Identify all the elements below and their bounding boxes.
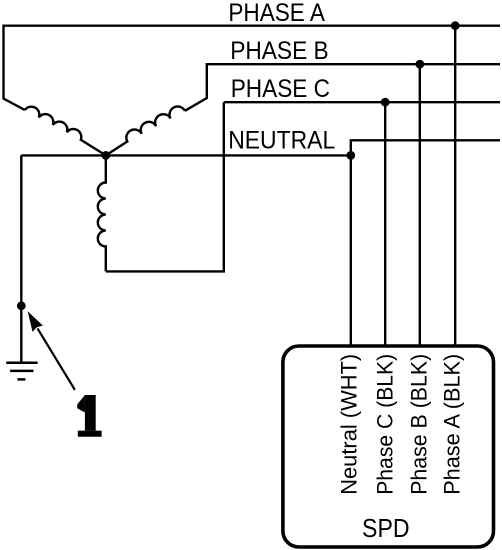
junction: wye neutral point xyxy=(101,151,110,160)
wire: loop from winding L3 back up to PHASE C xyxy=(106,102,224,271)
wire: neutral down to ground electrode xyxy=(20,155,22,362)
winding L1 (Phase A leg of wye) xyxy=(25,107,106,156)
SPD enclosure box xyxy=(283,346,494,547)
wire: Phase B (BLK) drop to SPD xyxy=(419,64,421,344)
junction: phase B tap to SPD xyxy=(415,60,424,69)
wire: PHASE B line down to winding xyxy=(185,64,500,111)
wire: PHASE C line xyxy=(224,101,500,103)
svg-text:PHASE A: PHASE A xyxy=(228,0,325,27)
wire: Phase C (BLK) drop to SPD xyxy=(384,102,386,344)
wire: NEUTRAL bus xyxy=(21,154,351,156)
svg-text:SPD: SPD xyxy=(362,513,410,543)
svg-text:Phase C (BLK): Phase C (BLK) xyxy=(373,354,398,495)
junction: phase A tap to SPD xyxy=(451,21,460,30)
wire: Neutral (WHT) drop to SPD xyxy=(350,155,352,344)
svg-text:PHASE B: PHASE B xyxy=(230,37,329,65)
winding L2 (Phase B leg of wye) xyxy=(106,106,185,155)
wire: Phase A (BLK) drop to SPD xyxy=(454,26,456,345)
svg-text:Phase B (BLK): Phase B (BLK) xyxy=(406,354,431,495)
svg-text:NEUTRAL: NEUTRAL xyxy=(228,126,335,154)
junction: ground bond point xyxy=(17,301,26,310)
junction: phase C tap to SPD xyxy=(381,98,390,107)
junction: neutral tap to SPD xyxy=(346,151,355,160)
svg-text:PHASE C: PHASE C xyxy=(231,75,330,103)
wire: PHASE A line down left side to winding xyxy=(4,26,501,110)
winding L3 (Phase C leg, vertical) xyxy=(98,155,106,271)
wire: neutral continuation to right edge xyxy=(351,140,500,155)
svg-text:Phase A (BLK): Phase A (BLK) xyxy=(440,354,465,495)
ground symbol xyxy=(6,363,37,380)
callout arrow pointing to ground bond xyxy=(28,311,75,390)
callout label 1 xyxy=(77,395,101,437)
svg-text:Neutral (WHT): Neutral (WHT) xyxy=(337,354,362,495)
